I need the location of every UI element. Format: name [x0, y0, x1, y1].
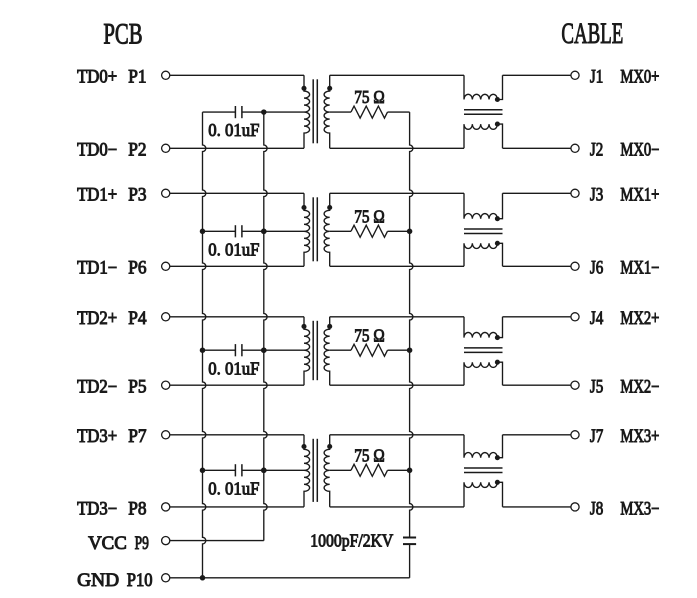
svg-text:0. 01uF: 0. 01uF — [208, 358, 259, 378]
transformer T4 (center-tapped) — [301, 435, 332, 507]
wire C2 left lead — [203, 230, 236, 232]
label TD3+ P7 — [77, 427, 147, 447]
wire L3 to J5 — [503, 384, 571, 386]
label TD2+ P4 — [77, 309, 147, 329]
resistor R3 75 ohm — [351, 344, 388, 356]
label TD1+ P3 — [77, 186, 147, 206]
wire T1 secondary top to L1 — [330, 74, 464, 76]
label J8 MX3- — [590, 499, 660, 519]
transformer T3 (center-tapped) — [301, 317, 332, 385]
svg-text:75 Ω: 75 Ω — [354, 87, 384, 107]
svg-text:GND: GND — [77, 571, 119, 591]
transformer T2 (center-tapped) — [301, 193, 332, 266]
pin J4 (MX2+) — [571, 313, 579, 321]
pin P8 (TD3-) — [162, 503, 170, 511]
svg-text:J5: J5 — [590, 378, 603, 398]
pin J6 (MX1-) — [571, 262, 579, 270]
svg-text:P5: P5 — [128, 378, 146, 398]
wire T2 secondary top to L2 — [330, 192, 464, 194]
wire T4 secondary bottom to L4 — [330, 506, 464, 508]
wire C4 left lead — [203, 469, 236, 471]
wire P7 to T4 primary top — [170, 434, 304, 436]
svg-text:TD2+: TD2+ — [77, 309, 117, 329]
svg-text:0. 01uF: 0. 01uF — [208, 478, 259, 498]
svg-text:MX0+: MX0+ — [620, 68, 659, 88]
common-mode choke L2 — [464, 193, 503, 266]
pin J2 (MX0-) — [571, 144, 579, 152]
wire R3 to common rail — [388, 349, 410, 351]
common-mode choke L4 — [464, 435, 503, 507]
svg-text:MX3−: MX3− — [620, 499, 659, 519]
svg-text:P10: P10 — [127, 571, 153, 591]
wire P8 to T4 primary bottom — [170, 506, 304, 508]
capacitor C1 0.01uF — [235, 106, 242, 118]
junction dots GND rail — [200, 229, 206, 581]
pin J1 (MX0+) — [571, 71, 579, 79]
value label C3 — [208, 358, 259, 378]
svg-text:0. 01uF: 0. 01uF — [208, 120, 259, 140]
wire T3 secondary tap to R3 — [330, 349, 351, 351]
svg-text:P9: P9 — [135, 534, 149, 554]
pin P5 (TD2-) — [162, 381, 170, 389]
svg-text:TD3+: TD3+ — [77, 427, 117, 447]
svg-text:TD3−: TD3− — [77, 499, 117, 519]
value label C2 — [208, 239, 259, 259]
pin J5 (MX2-) — [571, 381, 579, 389]
wire R1 to common rail — [388, 111, 410, 113]
svg-text:J1: J1 — [590, 68, 603, 88]
wire R2 to common rail — [388, 230, 410, 232]
value label C1 — [208, 120, 259, 140]
wire C3 to T3 primary center tap — [242, 349, 304, 351]
wire T4 secondary top to L4 — [330, 434, 464, 436]
svg-text:0. 01uF: 0. 01uF — [208, 239, 259, 259]
value label C5 — [310, 530, 393, 550]
wire R4 to common rail — [388, 469, 410, 471]
capacitor C4 0.01uF — [235, 464, 242, 476]
wire L2 to J6 — [503, 265, 571, 267]
value label R2 — [354, 206, 384, 226]
wire L4 to J7 — [503, 434, 571, 436]
svg-text:TD1−: TD1− — [77, 259, 117, 279]
common-mode choke L1 — [464, 75, 503, 148]
svg-text:TD0+: TD0+ — [77, 68, 117, 88]
svg-text:J7: J7 — [590, 427, 603, 447]
wire C4 to T4 primary center tap — [242, 469, 304, 471]
label J6 MX1- — [590, 259, 660, 279]
pin P9 (VCC) — [162, 537, 170, 545]
wire T1 secondary bottom to L1 — [330, 147, 464, 149]
svg-text:MX0−: MX0− — [620, 141, 659, 161]
svg-text:P4: P4 — [128, 309, 146, 329]
wire C3 left lead — [203, 349, 236, 351]
svg-text:J2: J2 — [590, 141, 603, 161]
svg-text:CABLE: CABLE — [561, 18, 623, 50]
wire P10 to C5 — [170, 577, 410, 579]
wire T1 secondary tap to R1 — [330, 111, 351, 113]
svg-text:VCC: VCC — [88, 534, 127, 554]
common-mode choke L3 — [464, 317, 503, 385]
junction dot node ct4 — [261, 468, 267, 474]
wire L4 to J8 — [503, 506, 571, 508]
junction dot node ct2 — [261, 229, 267, 235]
wire L2 to J3 — [503, 192, 571, 194]
wire T3 secondary bottom to L3 — [330, 384, 464, 386]
label TD1- P6 — [77, 259, 147, 279]
label TD0- P2 — [77, 141, 147, 161]
svg-text:1000pF/2KV: 1000pF/2KV — [310, 530, 393, 550]
svg-text:J8: J8 — [590, 499, 603, 519]
pin J7 (MX3+) — [571, 431, 579, 439]
svg-text:MX2−: MX2− — [620, 378, 659, 398]
label J7 MX3+ — [590, 427, 660, 447]
resistor R1 75 ohm — [351, 106, 388, 118]
junction dots VCC rail — [261, 229, 267, 473]
svg-text:MX1+: MX1+ — [620, 186, 659, 206]
label GND P10 — [77, 571, 153, 591]
svg-text:TD0−: TD0− — [77, 141, 117, 161]
title CABLE — [561, 18, 623, 50]
svg-text:MX3+: MX3+ — [620, 427, 659, 447]
svg-text:TD2−: TD2− — [77, 378, 117, 398]
VCC rail (center taps) — [264, 112, 267, 540]
value label R1 — [354, 87, 384, 107]
svg-text:MX2+: MX2+ — [620, 309, 659, 329]
wire P9 to VCC rail — [170, 540, 264, 542]
svg-text:J3: J3 — [590, 186, 603, 206]
pin P10 (GND) — [162, 574, 170, 582]
resistor R2 75 ohm — [351, 225, 388, 237]
wire C2 to T2 primary center tap — [242, 230, 304, 232]
svg-text:P6: P6 — [128, 259, 146, 279]
wire T2 secondary tap to R2 — [330, 230, 351, 232]
pin P4 (TD2+) — [162, 313, 170, 321]
pin J3 (MX1+) — [571, 189, 579, 197]
label J4 MX2+ — [590, 309, 660, 329]
wire P2 to T1 primary bottom — [170, 147, 304, 149]
wire L1 to J1 — [503, 74, 571, 76]
pin P2 (TD0-) — [162, 144, 170, 152]
label TD2- P5 — [77, 378, 147, 398]
wire T4 secondary tap to R4 — [330, 469, 351, 471]
label TD0+ P1 — [77, 68, 147, 88]
wire C1 left lead — [203, 111, 236, 113]
capacitor C3 0.01uF — [235, 344, 242, 356]
pin P6 (TD1-) — [162, 262, 170, 270]
svg-text:P2: P2 — [128, 141, 146, 161]
wire P1 to T1 primary top — [170, 74, 304, 76]
wire P6 to T2 primary bottom — [170, 265, 304, 267]
svg-text:P3: P3 — [128, 186, 146, 206]
label TD3- P8 — [77, 499, 147, 519]
svg-text:J6: J6 — [590, 259, 603, 279]
label J1 MX0+ — [590, 68, 660, 88]
junction dot node ct3 — [261, 347, 267, 353]
wire C1 to T1 primary center tap — [242, 111, 304, 113]
capacitor C2 0.01uF — [235, 225, 242, 237]
transformer T1 (center-tapped) — [301, 75, 332, 148]
junction dots resistor rail — [407, 229, 413, 473]
title PCB — [103, 18, 142, 50]
svg-text:MX1−: MX1− — [620, 259, 659, 279]
svg-text:75 Ω: 75 Ω — [354, 325, 384, 345]
label J5 MX2- — [590, 378, 660, 398]
pin P3 (TD1+) — [162, 189, 170, 197]
wire C5 bottom to GND wire — [409, 544, 411, 578]
svg-text:P7: P7 — [128, 427, 146, 447]
svg-text:P1: P1 — [128, 68, 146, 88]
resistor common rail — [410, 112, 413, 537]
label J3 MX1+ — [590, 186, 660, 206]
wire P4 to T3 primary top — [170, 316, 304, 318]
wire L3 to J4 — [503, 316, 571, 318]
wire P3 to T2 primary top — [170, 192, 304, 194]
GND rail (cap common) — [203, 112, 206, 578]
wire P5 to T3 primary bottom — [170, 384, 304, 386]
resistor R4 75 ohm — [351, 464, 388, 476]
svg-text:J4: J4 — [590, 309, 603, 329]
svg-text:TD1+: TD1+ — [77, 186, 117, 206]
label VCC P9 — [88, 534, 149, 554]
pin P1 (TD0+) — [162, 71, 170, 79]
value label R3 — [354, 325, 384, 345]
wire T3 secondary top to L3 — [330, 316, 464, 318]
wire L1 to J2 — [503, 147, 571, 149]
label J2 MX0- — [590, 141, 660, 161]
svg-text:75 Ω: 75 Ω — [354, 445, 384, 465]
pin P7 (TD3+) — [162, 431, 170, 439]
svg-text:P8: P8 — [128, 499, 146, 519]
value label C4 — [208, 478, 259, 498]
svg-text:PCB: PCB — [103, 18, 142, 50]
value label R4 — [354, 445, 384, 465]
svg-text:75 Ω: 75 Ω — [354, 206, 384, 226]
pin J8 (MX3-) — [571, 503, 579, 511]
capacitor C5 1000pF/2KV — [403, 538, 416, 545]
wire T2 secondary bottom to L2 — [330, 265, 464, 267]
junction dot node ct1 — [261, 109, 267, 115]
